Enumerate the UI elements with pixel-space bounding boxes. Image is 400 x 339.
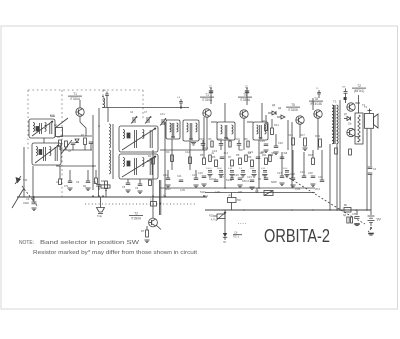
svg-text:C5: C5 xyxy=(122,186,126,189)
svg-text:C4: C4 xyxy=(130,111,134,114)
svg-text:C6: C6 xyxy=(234,231,238,235)
svg-text:6800: 6800 xyxy=(271,180,277,184)
svg-text:NOTE:: NOTE: xyxy=(19,240,34,246)
svg-text:ПС: ПС xyxy=(223,242,227,244)
svg-text:/FT403Б: /FT403Б xyxy=(310,102,322,106)
svg-text:ВК: ВК xyxy=(343,87,346,89)
svg-text:C18: C18 xyxy=(218,139,223,141)
svg-text:C13: C13 xyxy=(192,173,197,177)
svg-text:C30: C30 xyxy=(308,171,313,175)
svg-text:C12: C12 xyxy=(185,150,190,154)
svg-text:0,05: 0,05 xyxy=(261,168,266,170)
svg-text:56: 56 xyxy=(272,153,275,155)
svg-text:C9: C9 xyxy=(76,181,80,184)
svg-text:C15: C15 xyxy=(203,146,209,150)
svg-text:30,0: 30,0 xyxy=(283,168,288,170)
svg-text:C20: C20 xyxy=(234,173,239,177)
svg-text:T4: T4 xyxy=(243,93,247,97)
svg-text:2k: 2k xyxy=(212,153,215,155)
svg-text:R4: R4 xyxy=(83,185,87,188)
svg-text:(МП41): (МП41) xyxy=(354,89,365,93)
svg-text:C10: C10 xyxy=(163,173,168,177)
svg-text:4,7k: 4,7k xyxy=(211,219,216,222)
svg-text:/T330A: /T330A xyxy=(70,97,81,101)
svg-text:100,0: 100,0 xyxy=(206,168,212,170)
svg-text:R19: R19 xyxy=(315,134,320,138)
svg-text:470: 470 xyxy=(64,185,69,188)
svg-text:T1: T1 xyxy=(205,93,209,97)
svg-text:R9: R9 xyxy=(248,155,252,159)
svg-text:C8: C8 xyxy=(56,181,60,184)
svg-text:T8: T8 xyxy=(314,97,318,101)
svg-text:27: 27 xyxy=(209,86,212,89)
svg-text:20к: 20к xyxy=(348,124,353,126)
svg-text:20,0: 20,0 xyxy=(315,187,321,191)
svg-text:T1: T1 xyxy=(73,92,77,96)
svg-text:R9: R9 xyxy=(239,148,243,152)
svg-text:C29: C29 xyxy=(300,170,305,174)
svg-text:R8: R8 xyxy=(236,153,240,157)
svg-text:C27: C27 xyxy=(277,171,282,175)
svg-text:C28: C28 xyxy=(290,172,295,176)
svg-text:R2: R2 xyxy=(148,154,152,158)
svg-text:R7: R7 xyxy=(141,230,145,233)
svg-text:Д9: Д9 xyxy=(278,106,282,110)
svg-text:ORBITA-2: ORBITA-2 xyxy=(264,225,330,246)
svg-text:C4: C4 xyxy=(373,168,377,171)
svg-text:T5: T5 xyxy=(291,103,295,107)
svg-text:6,8: 6,8 xyxy=(103,90,107,92)
svg-text:/T330Б: /T330Б xyxy=(288,108,298,112)
svg-text:20,0: 20,0 xyxy=(250,168,255,170)
svg-text:С35: С35 xyxy=(352,213,357,216)
svg-text:R4: R4 xyxy=(101,180,105,183)
svg-text:C14: C14 xyxy=(160,113,165,116)
svg-text:1,0: 1,0 xyxy=(239,168,243,170)
svg-text:9V: 9V xyxy=(377,218,382,222)
svg-text:R17: R17 xyxy=(300,133,305,137)
svg-text:R7: R7 xyxy=(228,155,232,159)
svg-text:0,05: 0,05 xyxy=(228,168,233,170)
svg-text:30,0: 30,0 xyxy=(224,153,229,155)
svg-text:R18: R18 xyxy=(308,153,313,157)
svg-text:T2: T2 xyxy=(134,212,138,216)
svg-text:Resistor marked by* may differ: Resistor marked by* may differ from thos… xyxy=(33,250,198,256)
svg-text:Д7: Д7 xyxy=(344,113,348,116)
svg-text:0,05: 0,05 xyxy=(180,189,185,192)
svg-text:C8: C8 xyxy=(68,151,72,153)
svg-text:Д9: Д9 xyxy=(272,103,276,107)
svg-text:Band selector in position SW: Band selector in position SW xyxy=(40,240,140,246)
svg-text:ПС-1: ПС-1 xyxy=(233,235,240,239)
svg-text:R14: R14 xyxy=(274,123,279,127)
svg-text:Т2: Т2 xyxy=(364,105,368,109)
svg-text:6k8: 6k8 xyxy=(284,153,288,155)
svg-text:C19: C19 xyxy=(236,139,241,141)
svg-text:C22: C22 xyxy=(262,173,267,177)
svg-text:3300: 3300 xyxy=(23,201,29,205)
svg-text:180,0: 180,0 xyxy=(242,179,249,183)
svg-text:56: 56 xyxy=(258,177,262,181)
svg-text:C25: C25 xyxy=(260,139,265,143)
svg-text:100,0: 100,0 xyxy=(209,177,216,181)
svg-text:6,8: 6,8 xyxy=(177,97,181,99)
svg-text:SW: SW xyxy=(23,178,28,182)
svg-text:15: 15 xyxy=(316,88,319,90)
svg-text:C7: C7 xyxy=(144,111,148,114)
svg-text:R1: R1 xyxy=(57,137,61,139)
svg-text:MA: MA xyxy=(50,114,56,118)
svg-text:27: 27 xyxy=(245,86,248,89)
svg-text:C26: C26 xyxy=(278,141,283,145)
svg-text:Т1: Т1 xyxy=(333,100,337,104)
svg-text:R5: R5 xyxy=(200,153,204,157)
svg-text:R*: R* xyxy=(229,195,232,198)
svg-text:/T390A: /T390A xyxy=(131,216,142,220)
svg-text:C11: C11 xyxy=(177,174,182,178)
svg-text:R13: R13 xyxy=(262,119,267,123)
svg-text:T2: T2 xyxy=(357,84,361,88)
svg-text:C9: C9 xyxy=(93,182,97,185)
svg-text:R6: R6 xyxy=(212,155,216,159)
svg-text:Тлф: Тлф xyxy=(97,215,102,218)
svg-text:R3: R3 xyxy=(166,150,170,154)
svg-text:3Д: 3Д xyxy=(343,214,346,217)
svg-text:5100: 5100 xyxy=(226,178,233,182)
svg-text:560: 560 xyxy=(237,199,242,202)
svg-text:R16: R16 xyxy=(288,133,293,137)
svg-text:6800: 6800 xyxy=(165,188,171,191)
svg-text:ВК: ВК xyxy=(344,204,348,207)
svg-text:C6: C6 xyxy=(135,187,139,190)
svg-text:C6: C6 xyxy=(26,197,30,201)
svg-text:/T330A: /T330A xyxy=(240,98,251,102)
svg-text:C15: C15 xyxy=(200,139,205,141)
svg-text:C16: C16 xyxy=(198,171,203,175)
svg-text:C31: C31 xyxy=(318,175,323,179)
svg-text:5100: 5100 xyxy=(217,168,223,170)
